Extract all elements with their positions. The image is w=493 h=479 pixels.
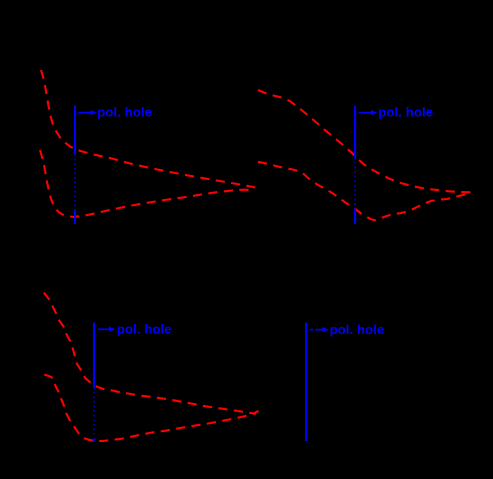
svg-text:pol. hole: pol. hole [378, 105, 433, 120]
arrow, panel 4 [310, 327, 328, 332]
panel 1 (top-left) [40, 70, 256, 217]
svg-text:pol. hole: pol. hole [97, 105, 152, 120]
panel 3 (bottom-left) [44, 293, 259, 442]
arrow, panel 2 [359, 110, 378, 115]
curve P3 upper branch [44, 293, 256, 414]
pol. hole marker line, panel 1 [74, 106, 76, 225]
curve P2 lower branch [258, 162, 470, 220]
svg-text:pol. hole: pol. hole [117, 322, 172, 337]
curve P3 lower branch [44, 375, 258, 442]
pol. hole marker line, panel 2 [354, 106, 356, 224]
arrow, panel 3 [98, 327, 115, 332]
panel 2 (top-right) [258, 90, 471, 220]
curve P1 upper: n(k) upper branch [41, 70, 256, 188]
curve P2 upper branch [258, 90, 471, 192]
pol. hole marker line, panel 4 [305, 323, 307, 441]
pol. hole marker line, panel 3 [93, 323, 95, 442]
curve P1 lower: n(k) lower branch [40, 150, 254, 217]
arrow, panel 1 [78, 110, 97, 115]
svg-text:pol. hole: pol. hole [330, 322, 385, 337]
